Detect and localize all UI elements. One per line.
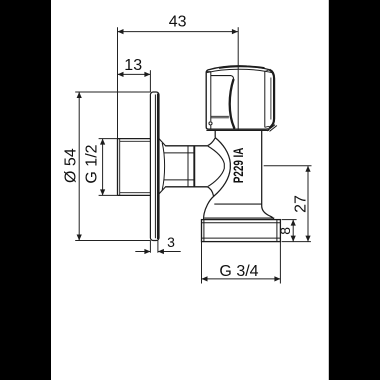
- dim 43 left extension (shared with 13): [117, 27, 119, 138]
- body bottom S-curve: [207, 187, 213, 196]
- svg-text:P229 IA: P229 IA: [231, 147, 246, 183]
- dim 43 line: [118, 31, 238, 33]
- svg-text:Ø 54: Ø 54: [63, 148, 80, 183]
- arrow 8 bottom: [291, 236, 296, 242]
- svg-text:8: 8: [277, 227, 293, 235]
- wall nut chamfer lines: [120, 141, 151, 192]
- handle mid facet thick curved edge: [230, 79, 235, 129]
- hex connector thin vertical: [187, 146, 189, 187]
- dim O54 bottom extension: [75, 240, 150, 242]
- wall plate (escutcheon side view): [150, 92, 159, 241]
- outlet flange chamfer verticals: [204, 220, 277, 242]
- dim 27 line: [307, 166, 309, 242]
- svg-text:G 1/2: G 1/2: [84, 144, 101, 183]
- arrow G1/2 top: [100, 139, 105, 145]
- arrow 3 left: [144, 249, 150, 254]
- wall nut G1/2 body: [118, 139, 151, 196]
- arrow 43 right: [232, 29, 238, 34]
- right black bar: [329, 0, 380, 380]
- wall plate right edge dark line: [157, 94, 159, 240]
- dim G3/4 line: [202, 278, 281, 280]
- handle outline left and top and bottom: [206, 66, 270, 129]
- handle left facet top jog: [207, 71, 211, 73]
- dim 13 line: [118, 73, 151, 75]
- pipe left stub below handle: [214, 130, 216, 137]
- hex connector thick vertical: [193, 146, 195, 187]
- arrow 3 right: [158, 249, 164, 254]
- handle top dark sliver: [219, 66, 265, 68]
- arrow G3/4 left: [202, 276, 208, 281]
- handle left facet bottom double line: [211, 116, 229, 118]
- dim 43 right extension / centerline through handle: [237, 27, 239, 130]
- svg-text:13: 13: [124, 57, 142, 74]
- pipe right edge and lower-right fillet: [262, 130, 274, 219]
- body outer chevron and lower-left fillet: [204, 138, 231, 220]
- dim 13 right extension: [149, 70, 151, 92]
- body top S-curve: [207, 138, 215, 146]
- arrow 8 top: [291, 220, 296, 226]
- dim O54 top extension: [75, 91, 150, 93]
- handle right bevel thin lines: [265, 70, 271, 127]
- arrow G3/4 right: [274, 276, 280, 281]
- arrow G1/2 bottom: [100, 189, 105, 195]
- svg-text:3: 3: [167, 234, 175, 250]
- handle right facet line: [264, 71, 266, 127]
- handle top rim second arc: [207, 69, 274, 73]
- handle bottom second line: [206, 129, 268, 131]
- arrow O54 top: [77, 92, 82, 98]
- dim 3 tails: [135, 251, 180, 253]
- dim 8/27 bottom extension: [282, 241, 311, 243]
- dim G3/4 extensions: [202, 242, 281, 284]
- dim O54 line: [78, 92, 80, 241]
- dim G1/2 extensions: [99, 139, 118, 196]
- outlet flange chamfer horizontals: [202, 223, 281, 238]
- dim 8 line: [292, 220, 294, 242]
- svg-text:27: 27: [292, 195, 309, 213]
- handle mid facet top line with corner: [211, 76, 234, 79]
- arrow O54 bottom: [77, 235, 82, 241]
- left black bar: [0, 0, 51, 380]
- dim 3 extensions: [150, 241, 158, 253]
- ring line above flange: [204, 217, 274, 219]
- pipe shoulder line: [214, 203, 261, 205]
- wall nut inner left edge: [119, 139, 121, 196]
- svg-text:43: 43: [169, 13, 187, 30]
- handle left facet line: [210, 71, 212, 129]
- wall plate inner edge line: [154, 95, 156, 239]
- hex connector chamfer horizontals: [164, 153, 195, 180]
- hex connector flats: [165, 146, 207, 187]
- dim 27 top extension: [264, 165, 312, 167]
- handle bottom-right bevel diagonals: [267, 125, 277, 132]
- handle right thick silhouette edge: [269, 70, 274, 128]
- arrow 13 left: [118, 72, 124, 77]
- dim 8 top extension: [282, 219, 297, 221]
- arrow 43 left: [118, 29, 124, 34]
- svg-text:G 3/4: G 3/4: [219, 263, 258, 280]
- hex connector left corner arc: [162, 143, 164, 190]
- outlet flange G3/4 outer rect: [202, 220, 281, 242]
- dim G1/2 line: [102, 139, 104, 196]
- arrow 27 bottom: [305, 236, 310, 242]
- body inner chevron: [208, 146, 225, 187]
- arrow 27 top: [305, 166, 310, 172]
- handle small circle detail: [209, 122, 212, 125]
- hex connector left chamfer diagonals: [159, 139, 166, 194]
- arrow 13 right: [144, 72, 150, 77]
